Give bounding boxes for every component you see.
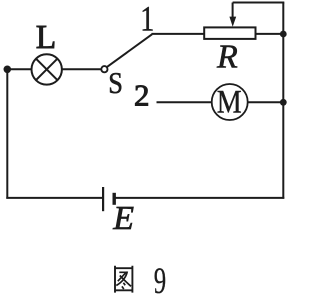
svg-text:M: M [217, 84, 242, 121]
wire contact 2 to motor M [157, 101, 212, 103]
battery E long plate [102, 187, 104, 211]
switch S pivot (open circle) [101, 66, 107, 72]
wire contact 1 to resistor R [152, 33, 205, 35]
svg-text:1: 1 [140, 0, 154, 38]
wire motor M to right rail [248, 101, 283, 103]
svg-text:E: E [112, 200, 134, 237]
wire resistor R to right rail [256, 33, 284, 35]
wire bottom rail left segment to battery [6, 197, 103, 199]
wire node A to lamp [7, 68, 31, 70]
lamp L symbol: circle with X [32, 54, 62, 84]
resistor R body (rheostat box) [204, 27, 255, 39]
wire bottom rail right segment from battery to right corner [114, 197, 284, 199]
svg-text:9: 9 [154, 260, 166, 297]
junction dot right rail at resistor lead [280, 31, 287, 38]
rheostat wiper arrowhead [229, 17, 236, 27]
motor M symbol circle [212, 84, 248, 120]
caption CJK glyph "tu" drawn as strokes [114, 266, 133, 293]
switch S blade from pivot to contact 1 [107, 34, 152, 67]
battery E short plate [112, 193, 115, 205]
svg-text:2: 2 [134, 77, 150, 112]
rheostat wiper stem [232, 3, 234, 19]
node A junction dot (left) [4, 66, 12, 74]
wire right-vertical rail [282, 3, 284, 199]
wire top rail from wiper to right rail [233, 2, 285, 4]
svg-text:S: S [108, 66, 123, 100]
svg-text:R: R [216, 39, 238, 76]
wire left-vertical from node A to bottom rail [6, 69, 8, 198]
wire lamp to switch pivot [62, 68, 101, 70]
svg-text:L: L [36, 19, 56, 56]
junction dot right rail at motor lead [280, 99, 287, 106]
